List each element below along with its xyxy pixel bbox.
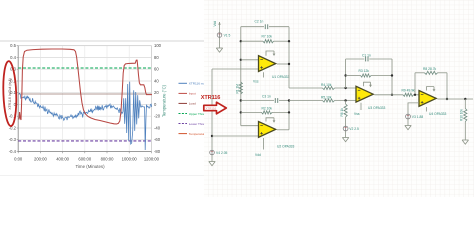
svg-text:Load: Load — [189, 102, 196, 106]
svg-text:XTR116: XTR116 — [205, 107, 216, 111]
svg-text:-0.4: -0.4 — [9, 149, 17, 154]
wire R6 to V2 — [345, 117, 347, 126]
wire U3 feedback left vertical — [345, 59, 347, 88]
svg-text:60: 60 — [154, 67, 159, 72]
svg-text:R6 1k: R6 1k — [340, 108, 344, 117]
ground below V4 — [209, 160, 215, 166]
wire V2 bottom — [345, 131, 347, 136]
node R5/R6 junction — [344, 99, 346, 101]
svg-text:Vdd: Vdd — [213, 21, 217, 27]
upper threshold green dashed — [18, 67, 151, 69]
svg-text:-20: -20 — [154, 114, 161, 119]
svg-text:V2 2.5: V2 2.5 — [349, 127, 359, 131]
svg-text:XTR116 In/Out (mA): XTR116 In/Out (mA) — [8, 78, 12, 110]
wire U2 minus input — [241, 125, 259, 127]
resistor R1 (vertical) — [239, 82, 242, 94]
voltage source V2 — [343, 126, 348, 131]
svg-text:R7 10k: R7 10k — [262, 34, 273, 38]
wire U3 feedback right vertical — [391, 59, 393, 95]
svg-text:XTR116: XTR116 — [201, 95, 221, 101]
svg-text:Vss: Vss — [253, 80, 259, 84]
legend — [179, 82, 188, 84]
plot border — [18, 46, 151, 152]
resistor R6 (vertical) — [345, 101, 347, 105]
svg-text:U3 OPA333: U3 OPA333 — [368, 106, 386, 110]
resistor R7 — [241, 40, 263, 42]
load constant line — [18, 93, 151, 95]
ground below V1 — [216, 46, 222, 52]
node R4/feedback junction — [344, 87, 346, 89]
U2 supply hook — [266, 118, 274, 122]
schematic background grid — [204, 0, 474, 197]
chart top hairline — [0, 40, 204, 42]
wire input bus vertical — [240, 27, 242, 126]
wire C3 feedback — [241, 100, 289, 102]
svg-text:800:00: 800:00 — [101, 156, 114, 161]
resistor R4 — [323, 86, 335, 89]
wire U4 output — [438, 98, 474, 100]
svg-text:0:00: 0:00 — [14, 156, 23, 161]
op-amp U4 OPA333 — [419, 91, 436, 107]
wire R8 feedback left vertical — [414, 73, 416, 95]
U4 supply stub — [426, 107, 428, 112]
svg-text:Temperature (°C): Temperature (°C) — [161, 84, 166, 117]
voltage source V1 — [217, 33, 222, 38]
resistor R8 — [415, 72, 425, 74]
svg-text:0.5: 0.5 — [10, 43, 16, 48]
svg-text:R1 1M: R1 1M — [235, 84, 239, 94]
svg-text:V1 5: V1 5 — [224, 33, 231, 37]
red series — [19, 49, 152, 124]
node load junction — [464, 98, 466, 100]
svg-text:1000:00: 1000:00 — [122, 156, 138, 161]
svg-text:-60: -60 — [154, 137, 161, 142]
resistor R2 — [241, 111, 262, 113]
wire U2 output to R5 — [289, 100, 356, 102]
wire left loop vertical — [211, 69, 213, 150]
svg-text:C1 1n: C1 1n — [362, 54, 371, 58]
svg-text:C2 1n: C2 1n — [255, 20, 264, 24]
resistor R5 — [323, 99, 335, 102]
wire U3 output — [375, 94, 404, 96]
node junctions on bus — [240, 40, 242, 42]
svg-text:1200:00: 1200:00 — [144, 156, 160, 161]
U3 Vss stub — [360, 103, 362, 110]
capacitor C1 — [365, 57, 367, 62]
ground below V2 — [342, 136, 348, 142]
axis ticks — [17, 45, 19, 47]
svg-text:Temperature: Temperature — [189, 132, 207, 136]
svg-text:Time (Minutes): Time (Minutes) — [75, 164, 105, 169]
svg-text:R10 10k: R10 10k — [459, 109, 463, 121]
wire R10 to ground — [464, 122, 466, 139]
svg-text:-80: -80 — [154, 149, 161, 154]
wire U4 plus input — [408, 103, 419, 114]
wire U1 output — [277, 63, 289, 65]
voltage source V4 — [210, 150, 215, 155]
svg-text:Input: Input — [189, 92, 196, 96]
svg-text:R9 49.9k: R9 49.9k — [402, 88, 416, 92]
svg-text:U2 OPA333: U2 OPA333 — [277, 145, 295, 149]
red block arrow — [204, 102, 227, 114]
wire feedback right vertical (U2) — [288, 101, 290, 130]
U4 supply hook — [427, 87, 435, 91]
wire V1 bottom — [219, 38, 221, 47]
lower threshold purple dashed — [18, 140, 151, 142]
wire U2 output — [277, 129, 289, 131]
svg-text:Vss: Vss — [354, 112, 360, 116]
plot gridlines — [18, 57, 151, 59]
wire C2 feedback top — [241, 26, 289, 28]
U1 supply hook Vdd — [266, 51, 274, 56]
svg-text:R2 10k: R2 10k — [262, 106, 273, 110]
resistor R10 (load, vertical) — [464, 109, 467, 122]
U1 Vss stub — [263, 72, 265, 77]
capacitor C3 — [274, 98, 276, 103]
svg-text:100: 100 — [154, 43, 162, 48]
svg-text:-40: -40 — [154, 126, 161, 131]
capacitor C2 — [264, 24, 266, 29]
svg-text:U1 OPA333: U1 OPA333 — [272, 75, 290, 79]
wire U2 plus input (bottom of loop) — [212, 135, 259, 137]
svg-text:R4 10k: R4 10k — [321, 83, 332, 87]
wire U1 output to R4 — [289, 87, 356, 89]
resistor R3 — [346, 75, 361, 77]
svg-text:200:00: 200:00 — [34, 156, 47, 161]
voltage source V3 — [406, 114, 411, 119]
svg-text:R8 28.7k: R8 28.7k — [423, 67, 437, 71]
svg-text:80: 80 — [154, 55, 159, 60]
wire load vertical — [464, 99, 466, 109]
svg-text:Vdd: Vdd — [255, 153, 261, 157]
svg-text:C3 1n: C3 1n — [262, 95, 271, 99]
op-amp U2 OPA333 — [259, 122, 276, 138]
svg-text:XTR116 mA: XTR116 mA — [189, 82, 207, 86]
svg-text:20: 20 — [154, 90, 159, 95]
svg-text:V3 1.88: V3 1.88 — [412, 115, 424, 119]
svg-text:400:00: 400:00 — [56, 156, 69, 161]
resistor R9 — [403, 93, 414, 96]
ground below R10 — [462, 138, 468, 144]
wire V4 bottom — [211, 155, 213, 160]
svg-text:-0.3: -0.3 — [9, 137, 17, 142]
U3 supply hook — [364, 82, 371, 86]
svg-text:0.4: 0.4 — [10, 55, 16, 60]
op-amp U3 OPA333 — [356, 86, 373, 102]
svg-text:40: 40 — [154, 79, 159, 84]
wire U1 plus input (top of loop) — [212, 68, 259, 70]
svg-text:600:00: 600:00 — [78, 156, 91, 161]
ground below V3 — [405, 124, 411, 130]
wire R8 feedback right vertical — [446, 73, 448, 99]
U2 Vdd stub — [263, 138, 265, 150]
op-amp U1 OPA333 — [259, 56, 276, 72]
wire U1 minus input — [241, 59, 259, 61]
node junction V4 tap — [211, 135, 213, 137]
wire C1 feedback top — [346, 58, 392, 60]
svg-text:V4 2.05: V4 2.05 — [216, 151, 228, 155]
blue noisy series — [19, 82, 152, 150]
wire V1 top stub — [219, 22, 221, 32]
svg-text:U4 OPA333: U4 OPA333 — [429, 112, 447, 116]
svg-text:R5 10k: R5 10k — [321, 96, 332, 100]
wire V3 bottom — [407, 119, 409, 124]
wire feedback right vertical (U1) — [288, 27, 290, 88]
red oval annotation — [2, 61, 17, 126]
svg-text:R3 12k: R3 12k — [359, 69, 370, 73]
